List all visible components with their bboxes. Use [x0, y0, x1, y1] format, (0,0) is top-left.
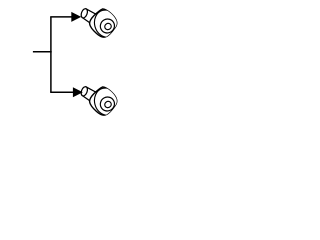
top knob part — [80, 7, 121, 39]
bracket spine — [50, 17, 52, 92]
bracket tick — [33, 51, 52, 53]
bottom knob part — [80, 85, 121, 117]
bottom arrow — [73, 87, 83, 97]
top arrow — [71, 12, 81, 22]
top branch wire — [50, 16, 73, 18]
bottom branch wire — [50, 91, 74, 93]
